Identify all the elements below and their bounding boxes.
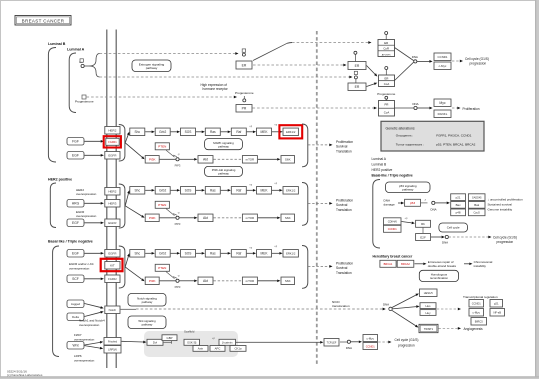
svg-text:FGFR2: FGFR2 <box>108 277 117 281</box>
svg-text:Angiogenesis: Angiogenesis <box>464 327 484 331</box>
gene box Akt row2 <box>179 217 194 219</box>
svg-text:Luminal A: Luminal A <box>372 157 387 161</box>
svg-text:MEK: MEK <box>261 130 269 134</box>
svg-text:p21: p21 <box>456 195 461 199</box>
svg-text:Scaffold: Scaffold <box>184 329 195 333</box>
gene box PI3K row3 <box>145 277 159 285</box>
gene box SOS row3 <box>171 252 177 254</box>
red highlight FGFR1 <box>104 136 121 147</box>
gene box CCND1 cdk <box>384 225 402 232</box>
svg-text:Survival: Survival <box>336 145 348 149</box>
svg-text:SOS: SOS <box>185 252 192 256</box>
gene box PI3K row1 <box>145 156 159 164</box>
gene box Ras row1 <box>196 131 202 133</box>
wire Delta to Notch <box>85 312 101 316</box>
svg-text:Ras: Ras <box>210 189 216 193</box>
gene box HES1/5 <box>392 295 416 308</box>
svg-text:APC: APC <box>215 347 221 351</box>
gene box Grb2 row2 <box>145 189 151 191</box>
svg-text:CDK4/6: CDK4/6 <box>388 220 398 224</box>
gene box Axin <box>193 346 208 352</box>
node E2 at ER <box>242 49 245 52</box>
complex PR CoA <box>379 101 395 117</box>
node PIP3 row3 <box>160 280 176 282</box>
pathway box homologous recombination <box>419 270 458 281</box>
wire dashed estrogen membrane path <box>100 76 350 78</box>
nuclear membrane dashed <box>316 31 318 365</box>
wire Akt to mTOR dashed row1 <box>214 158 242 160</box>
svg-text:RANKL: RANKL <box>438 112 448 116</box>
svg-text:HER2: HER2 <box>108 190 116 194</box>
svg-text:Grb2: Grb2 <box>159 189 166 193</box>
svg-text:Genetic alterations: Genetic alterations <box>386 126 415 130</box>
svg-text:CycG: CycG <box>473 211 479 215</box>
svg-text:pathway: pathway <box>218 144 229 148</box>
gene box ER upper <box>348 62 366 70</box>
bracket outputs row2 <box>302 183 308 226</box>
svg-text:EGF: EGF <box>72 252 79 256</box>
gene box beta-catenin <box>219 339 236 345</box>
gene box Raf row3 <box>221 252 228 254</box>
gene box p21 p53target <box>451 194 466 201</box>
gene box FGF ligand basal <box>67 275 84 283</box>
bracket outputs row1 <box>302 124 308 167</box>
gene box EGF ligand luminal <box>67 152 84 160</box>
gene box ER lower <box>348 83 366 91</box>
svg-text:HER3: HER3 <box>108 202 116 206</box>
gene box CCND1 notch <box>469 300 484 308</box>
svg-text:damage: damage <box>384 203 395 207</box>
svg-text:ERK1/2: ERK1/2 <box>286 252 296 256</box>
svg-text:p48: p48 <box>456 211 461 215</box>
svg-text:c-Myc: c-Myc <box>367 336 375 340</box>
wire EGF to EGFR basal <box>85 252 101 254</box>
svg-text:EGF: EGF <box>72 154 79 158</box>
gene box Rb <box>416 220 431 227</box>
svg-text:Notch: Notch <box>109 308 117 312</box>
gene box Bax <box>451 202 466 209</box>
svg-text:p53: p53 <box>410 201 415 205</box>
svg-text:CCND1: CCND1 <box>388 227 397 231</box>
svg-text:AP1/SP1: AP1/SP1 <box>382 53 392 56</box>
svg-text:BRCA1: BRCA1 <box>384 262 393 266</box>
svg-text:HES1/5: HES1/5 <box>424 291 433 295</box>
svg-text:Progesterone: Progesterone <box>75 99 94 103</box>
svg-text:DNA: DNA <box>383 302 389 306</box>
svg-text:DNA: DNA <box>431 208 437 212</box>
svg-text:Sustained survival: Sustained survival <box>488 202 513 206</box>
svg-text:ER: ER <box>355 85 360 89</box>
svg-text:overexpression: overexpression <box>76 192 97 196</box>
bracket outputs row3 <box>302 246 308 289</box>
gene box CDK4/6 <box>384 218 402 225</box>
gene box LRP5/6 <box>104 346 121 354</box>
pathway box Notch signaling <box>128 294 166 307</box>
svg-text:Survival: Survival <box>336 203 348 207</box>
gene box c-Myc notch <box>469 309 484 317</box>
svg-text:PI3K: PI3K <box>149 216 156 220</box>
svg-text:DNA: DNA <box>412 102 418 106</box>
pathway box p53 signaling <box>386 182 431 193</box>
svg-text:BREAST CANCER: BREAST CANCER <box>22 18 65 23</box>
gene box BIRC5 <box>471 318 487 326</box>
svg-text:Ras: Ras <box>210 252 216 256</box>
svg-text:MEK: MEK <box>261 189 269 193</box>
wire dashed progesterone <box>87 96 234 98</box>
svg-text:Genome instability: Genome instability <box>488 207 513 211</box>
svg-text:Translation: Translation <box>336 150 352 154</box>
wire Rb to E2F <box>422 228 424 234</box>
gene box Delta ligand <box>67 313 84 321</box>
gene box mTOR row3 <box>242 277 257 285</box>
svg-text:Dvl: Dvl <box>153 341 158 345</box>
wire to Shc basal <box>125 256 128 267</box>
gene box c-Myc wnt target <box>363 335 378 342</box>
wire Wnt to LRP <box>85 346 101 348</box>
gene box HER2 luminal <box>105 127 120 135</box>
svg-text:HRG: HRG <box>72 202 80 206</box>
gene box E2F <box>416 234 431 241</box>
wire p53 to DNA <box>421 202 428 204</box>
svg-text:CCND1: CCND1 <box>438 55 448 59</box>
svg-text:↓ uncontrolled proliferation: ↓ uncontrolled proliferation <box>488 197 524 201</box>
svg-text:Translation: Translation <box>336 271 352 275</box>
svg-text:mTOR: mTOR <box>246 158 254 162</box>
svg-text:SOS: SOS <box>185 189 192 193</box>
wire dashed PR to nucleus <box>253 107 374 109</box>
svg-text:Akt: Akt <box>203 216 208 220</box>
gene box RANKL <box>434 110 451 118</box>
pathway box MAPK signaling <box>205 139 243 150</box>
gene box Hey <box>420 310 436 316</box>
svg-text:double-strand breaks: double-strand breaks <box>428 264 457 268</box>
svg-text:mTOR: mTOR <box>246 216 254 220</box>
svg-text:Proliferation: Proliferation <box>336 198 353 202</box>
svg-text:CK1α: CK1α <box>234 347 241 351</box>
gene box BRCA2 <box>397 260 414 267</box>
gene box FGFR2 <box>105 275 120 283</box>
pathway box cell cycle <box>439 223 468 232</box>
gene box CCND1 estrogen target <box>434 53 451 61</box>
svg-text:overexpression: overexpression <box>79 323 100 327</box>
svg-text:FGF: FGF <box>72 140 79 144</box>
svg-text:overexpression: overexpression <box>74 337 95 341</box>
svg-text:Raf: Raf <box>236 252 241 256</box>
svg-text:Akt: Akt <box>203 158 208 162</box>
gene box HER2 her2section <box>105 188 120 196</box>
gene box Dvl <box>147 339 163 345</box>
svg-text:EGFR: EGFR <box>108 221 116 225</box>
svg-text:BIRC5: BIRC5 <box>475 320 483 324</box>
svg-text:Oncogenes :: Oncogenes : <box>396 134 414 138</box>
svg-text:LRP5/6: LRP5/6 <box>108 348 117 352</box>
wire Dvl inhibits GSK <box>164 341 172 343</box>
gene box EGFR basal <box>105 250 120 258</box>
wire PTEN inhibits PIP3 row3 <box>166 272 175 279</box>
complex ER CoA <box>379 75 395 87</box>
wire ER to ER-CoA complex <box>367 66 376 75</box>
wire EGF to EGFR luminal <box>85 154 101 156</box>
svg-text:Grb2: Grb2 <box>159 252 166 256</box>
gene box ERK1/2 row1 <box>272 131 280 133</box>
svg-text:overexpression: overexpression <box>74 358 95 362</box>
wire to Shc luminal <box>125 135 128 143</box>
svg-text:DNA: DNA <box>412 55 418 59</box>
pathway box Wnt signaling <box>128 316 166 329</box>
svg-text:progression: progression <box>497 240 514 244</box>
svg-text:PR: PR <box>385 103 389 107</box>
gene box Grb2 row3 <box>145 252 151 254</box>
svg-text:CoA: CoA <box>384 110 390 114</box>
gene box HRG ligand <box>67 200 84 208</box>
gene box GSK-3b <box>184 339 200 345</box>
gene box KIT <box>105 262 120 270</box>
wire Akt to mTOR dashed row3 <box>214 280 242 282</box>
svg-text:c-Myc: c-Myc <box>439 64 447 68</box>
wire repair to instability <box>464 263 469 265</box>
gene box p53 <box>398 202 401 204</box>
svg-text:Cell cycle (G1/S): Cell cycle (G1/S) <box>395 338 419 342</box>
svg-text:MEK: MEK <box>261 252 269 256</box>
svg-text:Transcriptional regulation: Transcriptional regulation <box>463 295 498 299</box>
gene box Myc <box>434 99 451 107</box>
svg-text:Basal-like / Triple negative: Basal-like / Triple negative <box>372 173 413 177</box>
node DNA e2f <box>431 236 442 238</box>
svg-text:ERK1/2: ERK1/2 <box>286 189 296 193</box>
node DNA progesterone <box>395 107 414 109</box>
gene box ERK1/2 row3 <box>272 252 280 254</box>
svg-text:progression: progression <box>470 61 487 65</box>
svg-text:Ras: Ras <box>210 130 216 134</box>
pathway box PI3K-Akt signaling <box>205 166 243 176</box>
gene box MEK row2 <box>247 189 253 191</box>
svg-text:Progesterone: Progesterone <box>377 92 395 96</box>
wire CDK to Rb <box>402 222 412 223</box>
wire dashed to cell cycle bottom <box>378 341 388 343</box>
svg-text:p53, PTEN, BRCA1, BRCA2: p53, PTEN, BRCA1, BRCA2 <box>436 142 475 146</box>
wire dashed ER to nuclear ER <box>253 64 343 66</box>
gene box CCND1 wnt target <box>363 343 378 350</box>
wire to Shc her2 <box>125 193 128 205</box>
title box BREAST CANCER <box>15 16 71 26</box>
cell membrane line inner <box>115 30 117 369</box>
gene box Ras row2 <box>196 189 202 191</box>
svg-text:Axin: Axin <box>198 347 204 351</box>
gene box p48 <box>451 209 466 216</box>
svg-text:ER: ER <box>355 64 360 68</box>
svg-text:hormone receptor: hormone receptor <box>203 87 229 91</box>
gene box mTOR row2 <box>242 214 257 222</box>
svg-text:KIT: KIT <box>110 264 115 268</box>
gene box FGF ligand <box>67 138 84 146</box>
svg-text:Basal like / Triple negative: Basal like / Triple negative <box>48 240 93 244</box>
wire dashed to proliferation text row1 <box>308 144 329 146</box>
gene box GBP <box>162 335 177 341</box>
svg-text:Luminal B: Luminal B <box>372 162 387 166</box>
wire ER to nucleus diagonal <box>253 43 287 60</box>
svg-text:CoA: CoA <box>384 82 390 86</box>
node DNA estrogen <box>395 48 414 61</box>
svg-text:Wnt: Wnt <box>72 344 78 348</box>
gene box GADD45 <box>468 194 485 201</box>
gene box EGF ligand basal <box>67 250 84 258</box>
svg-text:progression: progression <box>398 343 415 347</box>
svg-text:BRCA2: BRCA2 <box>401 262 410 266</box>
gene box BRCA1 <box>380 260 396 267</box>
gene box NF-kB notch <box>490 309 505 317</box>
svg-text:translocation: translocation <box>332 304 350 308</box>
wire dashed to proliferation text row2 <box>308 202 329 204</box>
svg-text:S6K: S6K <box>285 279 291 283</box>
gene box PTEN row1 <box>155 143 169 150</box>
node DNA p53 <box>432 201 435 204</box>
svg-text:FGFR1: FGFR1 <box>108 140 117 144</box>
svg-text:PIP3: PIP3 <box>175 222 181 226</box>
wire FGF to FGFR1 <box>85 140 101 142</box>
wire Akt to mTOR dashed row2 <box>214 217 242 219</box>
svg-text:pathway: pathway <box>402 187 414 191</box>
red highlight KIT <box>101 259 123 271</box>
svg-text:Hereditary breast cancer: Hereditary breast cancer <box>373 255 413 259</box>
svg-text:ER: ER <box>384 41 388 45</box>
gene box mTOR row1 <box>242 156 257 164</box>
gene box Shc row2 <box>130 187 145 195</box>
svg-text:recombination: recombination <box>430 276 449 280</box>
svg-text:PTEN: PTEN <box>158 266 166 270</box>
svg-text:CCND1: CCND1 <box>472 302 481 306</box>
svg-text:Proliferation: Proliferation <box>463 107 480 111</box>
gene box Hes <box>392 307 416 309</box>
svg-text:TCF/LEF: TCF/LEF <box>327 342 337 345</box>
svg-text:Jagged: Jagged <box>71 302 81 306</box>
svg-text:Akt: Akt <box>203 279 208 283</box>
wire Jagged to Notch <box>85 304 101 308</box>
gene box PTEN row3 <box>155 264 169 271</box>
svg-text:HER2: HER2 <box>108 129 116 133</box>
wire to PI3K luminal <box>125 143 142 157</box>
svg-text:Raf: Raf <box>236 130 241 134</box>
gene box MEK row3 <box>247 252 253 254</box>
svg-text:ER: ER <box>242 63 247 67</box>
node PIP3 row1 <box>160 158 176 160</box>
svg-text:instability: instability <box>474 264 487 268</box>
wire dashed TWIST to angiogenesis <box>439 327 458 329</box>
bracket p53 section <box>373 180 380 249</box>
gene box Jagged ligand <box>67 300 84 308</box>
svg-text:PIP3: PIP3 <box>175 164 181 168</box>
svg-text:Raf: Raf <box>236 189 241 193</box>
gene box PTEN row2 <box>155 201 169 208</box>
svg-text:TWIST1: TWIST1 <box>424 328 434 331</box>
gene box TCF/LEF <box>324 339 339 347</box>
svg-text:PR: PR <box>242 107 247 111</box>
gene box Shc row3 <box>130 250 145 257</box>
svg-text:ERK1/2: ERK1/2 <box>286 130 296 134</box>
svg-text:Frizzled: Frizzled <box>108 340 118 344</box>
svg-text:Luminal B: Luminal B <box>48 42 66 46</box>
gene box CycG <box>468 209 485 216</box>
red highlight ERK1/2 row1 <box>279 125 302 138</box>
svg-text:NF-κB: NF-κB <box>493 311 501 315</box>
gene box Shc row1 <box>130 128 145 136</box>
gene box Frizzled <box>104 338 121 346</box>
wire Frizzled to Dvl <box>122 340 144 343</box>
gene box ER cytosol <box>236 61 252 69</box>
gene box S6K row2 <box>258 217 277 219</box>
svg-text:Tumor suppressors :: Tumor suppressors : <box>396 142 424 146</box>
svg-text:Progesterone: Progesterone <box>235 91 254 95</box>
gene box Wnt ligand <box>67 342 84 350</box>
svg-text:PI3K: PI3K <box>149 158 156 162</box>
svg-text:CCND1: CCND1 <box>366 344 375 348</box>
wire Wnt to Frizzled <box>85 342 101 345</box>
gene box p21 notch <box>490 300 503 308</box>
gene box EGF ligand her2section <box>67 219 84 227</box>
panel Wnt destruction complex <box>144 331 238 357</box>
gene box APC <box>210 346 225 352</box>
svg-text:E2F: E2F <box>420 235 426 239</box>
svg-text:Proliferation: Proliferation <box>336 261 353 265</box>
wire dashed to proliferation text row3 <box>308 265 329 267</box>
svg-text:PI3K: PI3K <box>149 279 156 283</box>
wire dashed to cell cycle progression <box>452 60 460 62</box>
svg-text:Hey: Hey <box>426 311 432 315</box>
gene box Notch <box>105 306 120 314</box>
svg-text:PTEN: PTEN <box>158 145 166 149</box>
node progesterone ligand <box>82 95 86 99</box>
wire PTEN inhibits PIP3 row1 <box>166 150 175 157</box>
wire dashed estrogen genomic to nucleus <box>100 53 236 55</box>
svg-text:PTEN: PTEN <box>158 203 166 207</box>
svg-text:DNA: DNA <box>442 241 448 245</box>
svg-text:Luminal A: Luminal A <box>67 48 85 52</box>
wire SCF to FGFR2 <box>85 278 101 280</box>
wire E2 to split brace <box>84 65 89 67</box>
svg-text:ER: ER <box>385 77 389 81</box>
svg-text:β-catenin: β-catenin <box>222 342 233 345</box>
svg-text:(c) Kanehisa Laboratories: (c) Kanehisa Laboratories <box>7 373 43 377</box>
gene box CK1a <box>230 346 246 352</box>
wire beta-catenin to TCF/LEF <box>236 341 320 343</box>
wire to PI3K basal <box>125 267 142 279</box>
node PIP3 row2 <box>160 217 176 219</box>
svg-text:S6K: S6K <box>285 216 291 220</box>
gene box S6K row3 <box>258 280 277 282</box>
svg-text:EGFR: EGFR <box>108 252 116 256</box>
wire PTEN inhibits PIP3 row2 <box>166 209 175 216</box>
gene box Grb2 row1 <box>145 131 151 133</box>
svg-text:EGFR: EGFR <box>108 154 116 158</box>
svg-text:GADD45: GADD45 <box>472 196 482 199</box>
svg-text:pathway: pathway <box>142 300 153 304</box>
page border frame <box>0 0 2 379</box>
gene box c-Myc estrogen target <box>434 62 451 70</box>
svg-text:EGF: EGF <box>72 221 79 225</box>
gene box MEK row1 <box>247 131 253 133</box>
svg-text:Bak: Bak <box>474 203 480 207</box>
svg-text:HER2 positive: HER2 positive <box>48 178 72 182</box>
svg-text:Shc: Shc <box>135 189 141 193</box>
svg-text:overexpression: overexpression <box>69 266 90 270</box>
bracket receptors luminal <box>119 125 125 162</box>
gene box EGFR her2section <box>105 219 120 227</box>
gene box FGFR1 <box>106 138 119 145</box>
wire Notch NICD dashed translocation <box>121 308 137 310</box>
svg-text:GBP: GBP <box>167 336 173 340</box>
wire dashed Hes to transcription <box>437 308 458 310</box>
svg-text:DNA: DNA <box>346 346 352 350</box>
gene box PR <box>236 105 252 113</box>
